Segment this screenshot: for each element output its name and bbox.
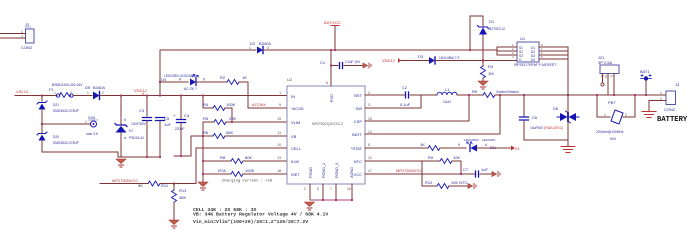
- zener D7: [115, 118, 147, 140]
- svg-text:1: 1: [604, 113, 606, 117]
- svg-text:R4: R4: [203, 102, 209, 107]
- svg-text:10uH: 10uH: [443, 100, 452, 104]
- node V3 flag: [511, 146, 519, 152]
- svg-text:2mohm/3mohm: 2mohm/3mohm: [496, 90, 519, 94]
- svg-text:PGND_3: PGND_3: [335, 163, 339, 178]
- node junctions PGND bus: [322, 199, 324, 201]
- svg-text:B340A: B340A: [259, 41, 271, 46]
- TVS D6: [553, 106, 579, 123]
- svg-text:1K: 1K: [242, 75, 247, 80]
- wire D5 to IC IN: [100, 95, 287, 97]
- wire BATT row: [365, 95, 500, 134]
- wire CELL row: [196, 147, 287, 149]
- wire R2 to ACOK drop: [239, 82, 248, 108]
- svg-text:LED/GRN: LED/GRN: [482, 138, 495, 142]
- svg-text:11: 11: [277, 131, 281, 135]
- wire R4 right drop to VLIM row: [231, 108, 233, 122]
- resistor R8 80K (ILIM): [203, 155, 287, 164]
- diode D21: [37, 101, 80, 113]
- ground arrow left rail: [116, 159, 126, 167]
- node junction R10/VCC: [460, 173, 462, 175]
- capacitor C3: [139, 96, 152, 158]
- wire NTC drop to R12: [421, 161, 423, 186]
- wire VCC row: [365, 173, 475, 175]
- resistor R9 sense: [472, 89, 519, 98]
- node junction battery/BAT1: [645, 94, 647, 96]
- svg-text:LEDC0603: LEDC0603: [464, 138, 479, 142]
- svg-text:*ACOK: *ACOK: [291, 106, 304, 111]
- svg-text:PGND_2: PGND_2: [322, 163, 326, 178]
- svg-text:VB: VB: [291, 134, 297, 139]
- node junction rail/PGD: [330, 49, 332, 51]
- node VIN_12: [16, 89, 29, 94]
- svg-text:PSD24-AI: PSD24-AI: [129, 136, 144, 140]
- node junction battery/FB right: [634, 94, 636, 96]
- wire PGND bus: [310, 199, 352, 201]
- node ACOK# label: [252, 102, 266, 107]
- wire R9 to battery line: [495, 94, 666, 96]
- svg-text:16: 16: [347, 187, 351, 191]
- wire J21 pin2: [607, 74, 609, 96]
- wire C6/TVS bottom rail: [524, 139, 568, 141]
- svg-text:15: 15: [368, 117, 372, 121]
- fuse F1: [49, 83, 83, 98]
- diode D3 1N4148: [418, 54, 460, 64]
- wire U1 source bracket: [497, 47, 517, 55]
- node junction rail/C3: [146, 156, 148, 158]
- svg-text:2: 2: [625, 113, 627, 117]
- svg-text:80K: 80K: [245, 155, 252, 160]
- svg-text:D4: D4: [161, 77, 167, 82]
- wire C4 bottom mini rail: [174, 155, 191, 157]
- svg-text:BZT52C12: BZT52C12: [489, 27, 505, 31]
- svg-text:1K: 1K: [420, 142, 425, 147]
- svg-text:MP2750NVCC: MP2750NVCC: [112, 178, 138, 183]
- ground arrow divider: [198, 182, 208, 190]
- svg-text:CELL: CELL: [291, 146, 302, 151]
- ground arrow C7 (sideways): [492, 172, 500, 177]
- svg-text:13: 13: [277, 156, 281, 160]
- svg-text:PGND: PGND: [309, 167, 313, 178]
- svg-text:R9: R9: [428, 155, 434, 160]
- ground bars J3: [642, 112, 656, 118]
- ground arrow R3: [478, 81, 488, 89]
- wire L1 to R9: [457, 94, 483, 96]
- svg-text:1M: 1M: [488, 71, 494, 76]
- svg-text:2: 2: [102, 91, 104, 95]
- svg-text:2.2uF 10V: 2.2uF 10V: [345, 60, 361, 64]
- wire VDD12 to D3: [401, 60, 429, 62]
- svg-text:SMD4532-073NP: SMD4532-073NP: [53, 109, 80, 113]
- svg-text:1: 1: [249, 46, 251, 50]
- svg-text:VDD12: VDD12: [134, 88, 148, 93]
- wire VB row to IC: [225, 135, 287, 137]
- wire top rail right of D2: [263, 49, 497, 51]
- wire U1 drain vertical to battery line: [567, 47, 569, 95]
- svg-text:D5: D5: [85, 85, 91, 90]
- wire F1 to D5: [73, 95, 92, 97]
- svg-text:1: 1: [279, 91, 281, 95]
- svg-text:Charging Current : <1A: Charging Current : <1A: [222, 179, 273, 184]
- wire CSP row: [365, 95, 469, 121]
- wire ground rail left: [118, 156, 160, 158]
- svg-text:ACOK#: ACOK#: [252, 102, 266, 107]
- svg-text:C6: C6: [532, 115, 538, 120]
- svg-text:100K: 100K: [226, 102, 236, 107]
- capacitor C1 2.2uF: [320, 60, 363, 69]
- resistor R11 5K: [138, 181, 196, 188]
- wire R11 row: [100, 183, 148, 185]
- node junction x203/ISET: [202, 173, 204, 175]
- svg-text:BAT1: BAT1: [640, 69, 650, 74]
- resistor 1K STAT: [420, 142, 440, 151]
- note bottom text: [193, 207, 328, 225]
- wire top rail: [160, 49, 256, 51]
- LED D31: [458, 138, 496, 152]
- wire LED to V3 flag: [477, 147, 511, 149]
- svg-text:56K: 56K: [226, 130, 233, 135]
- node junction BATT tap: [499, 94, 501, 96]
- svg-text:U2: U2: [287, 77, 293, 82]
- wire D7 to ground rail: [120, 133, 122, 158]
- wire divider ground column x203: [202, 122, 204, 182]
- svg-text:R12: R12: [425, 180, 433, 185]
- node junction riser/LED row: [159, 81, 161, 83]
- node junction D21/D20: [41, 123, 43, 125]
- node junction CSP tap: [468, 94, 470, 96]
- svg-text:10UF/50V: 10UF/50V: [131, 122, 147, 126]
- svg-text:CON2: CON2: [21, 45, 33, 50]
- svg-text:R6: R6: [203, 130, 209, 135]
- node junction R4/R5/VLIM: [231, 121, 233, 123]
- svg-text:4: 4: [368, 91, 370, 95]
- wire D21 to junction: [42, 110, 90, 125]
- svg-text:L1: L1: [445, 87, 450, 92]
- wire U1 drain stubs: [539, 47, 568, 59]
- transistor U1 P-MOSFET pack: [512, 36, 556, 67]
- zener D1 BZT52C12: [478, 19, 506, 35]
- svg-text:1: 1: [85, 120, 87, 124]
- svg-text:12: 12: [368, 156, 372, 160]
- svg-text:10K NTC: 10K NTC: [451, 180, 468, 185]
- power flag BAT/VCC: [324, 20, 341, 50]
- wire LED to R2: [196, 81, 227, 83]
- svg-text:18: 18: [277, 169, 281, 173]
- connector J2 top-left: [21, 22, 34, 50]
- wire SW to L1: [421, 94, 437, 96]
- svg-text:9: 9: [279, 103, 281, 107]
- svg-text:BAT/VCC: BAT/VCC: [324, 20, 341, 25]
- resistor R3 1M: [481, 61, 494, 82]
- svg-text:BATT: BATT: [352, 132, 362, 137]
- svg-text:10uF50V: 10uF50V: [530, 126, 544, 130]
- ground arrow C1 (sideways): [363, 63, 371, 68]
- wire VLIM row to IC: [226, 121, 287, 123]
- svg-text:*STAT: *STAT: [351, 146, 363, 151]
- svg-text:C1: C1: [320, 60, 326, 65]
- wire zener loop: [470, 16, 483, 61]
- svg-text:D3: D3: [418, 54, 424, 59]
- svg-text:VCC: VCC: [354, 172, 363, 177]
- connector J21 3P: [598, 55, 619, 78]
- ground arrow R13: [169, 220, 179, 228]
- svg-text:1: 1: [54, 91, 56, 95]
- svg-text:1: 1: [660, 91, 662, 95]
- svg-text:17: 17: [368, 169, 372, 173]
- svg-text:D7: D7: [129, 129, 133, 133]
- node junction battery line/U1: [567, 94, 569, 96]
- svg-text:6: 6: [326, 81, 328, 85]
- wire ACOK row: [248, 107, 287, 109]
- node junction D3/zener/R3: [482, 60, 484, 62]
- capacitor C4 220uF: [173, 96, 190, 157]
- svg-text:5K: 5K: [138, 183, 143, 188]
- svg-text:CSP: CSP: [354, 119, 363, 124]
- svg-text:19: 19: [277, 117, 281, 121]
- svg-text:220uF: 220uF: [175, 127, 184, 131]
- wire STAT row: [365, 147, 428, 149]
- resistor R4 100K: [203, 102, 236, 111]
- svg-text:VLIM: VLIM: [291, 120, 300, 125]
- svg-text:MP2750GQJXXXX-Z: MP2750GQJXXXX-Z: [312, 122, 343, 126]
- node junction x203/ILIM: [202, 160, 204, 162]
- wire TVS column: [567, 95, 569, 113]
- resistor R12 10K NTC: [422, 180, 468, 189]
- wire BST row: [365, 94, 405, 96]
- svg-text:VIN 12: VIN 12: [16, 89, 29, 94]
- svg-text:U1: U1: [520, 36, 526, 41]
- resistor R7A 100K (ISET): [203, 168, 287, 177]
- wire VB left drop: [190, 136, 192, 156]
- svg-text:10: 10: [277, 143, 281, 147]
- wire D20 to bottom rail: [41, 124, 43, 133]
- svg-text:SW: SW: [356, 106, 363, 111]
- svg-text:R3: R3: [488, 64, 494, 69]
- node junction rail/BATVCC: [334, 49, 336, 51]
- node junction x203/VB row: [202, 135, 204, 137]
- wire CELL drop x196: [195, 148, 197, 184]
- wire TVS column x42: [41, 96, 43, 102]
- resistor R6 56K: [191, 130, 233, 139]
- connector J3 battery CON2: [657, 82, 688, 124]
- svg-text:BATTERY: BATTERY: [657, 116, 688, 124]
- svg-text:100K: 100K: [245, 168, 255, 173]
- svg-text:8: 8: [368, 143, 370, 147]
- svg-text:C4: C4: [184, 113, 190, 118]
- resistor R10 10K pullup: [422, 155, 461, 164]
- ground bars C6/TVS: [561, 140, 575, 153]
- wire PGND stubs: [310, 184, 352, 200]
- svg-text:Vin_min=Vlim*(100+20)/20=1.2*1: Vin_min=Vlim*(100+20)/20=1.2*120/20=7.2V: [193, 219, 308, 225]
- node junction main/C3: [146, 95, 148, 97]
- svg-text:R5: R5: [203, 116, 209, 121]
- resistor R2 1K: [220, 75, 247, 85]
- wire J21 pin3: [613, 74, 615, 96]
- svg-text:1N4148W-7-F: 1N4148W-7-F: [439, 56, 460, 60]
- wire D3 to U1 gate: [435, 60, 517, 62]
- wire J21 pin1 w/ open end: [601, 74, 604, 87]
- svg-text:1uF: 1uF: [164, 122, 171, 127]
- wire NTC row: [365, 160, 422, 162]
- svg-text:BSMD1206-200-16V: BSMD1206-200-16V: [52, 83, 83, 87]
- node junction battery line/C6: [523, 94, 525, 96]
- svg-text:5: 5: [317, 187, 319, 191]
- wire SW row: [365, 107, 421, 109]
- ground arrow R12 (sideways): [468, 184, 476, 189]
- node junction R11/R13: [173, 183, 175, 185]
- node junction main/D7: [120, 95, 122, 97]
- svg-text:3: 3: [368, 103, 370, 107]
- svg-text:1uF: 1uF: [481, 167, 488, 172]
- svg-text:AGND: AGND: [350, 167, 354, 178]
- node VDD12 flag: [134, 88, 148, 96]
- node junction battery/FB left: [596, 94, 598, 96]
- svg-text:20K: 20K: [229, 116, 236, 121]
- svg-text:NTC: NTC: [354, 159, 362, 164]
- node junction battery/J21: [613, 94, 615, 96]
- svg-text:0.1uF: 0.1uF: [400, 102, 411, 107]
- svg-text:B340A: B340A: [93, 85, 105, 90]
- svg-text:14: 14: [368, 130, 372, 134]
- svg-text:IN: IN: [291, 94, 295, 99]
- ferrite bead FB7 loop: [597, 95, 635, 117]
- svg-text:2: 2: [267, 46, 269, 50]
- svg-text:BST: BST: [354, 93, 362, 98]
- svg-text:D6: D6: [553, 106, 559, 111]
- svg-text:D4: D4: [531, 58, 535, 62]
- resistor R5 20K: [203, 116, 236, 125]
- svg-text:(RAB,DISC): (RAB,DISC): [544, 126, 563, 130]
- svg-text:PGD: PGD: [330, 94, 334, 102]
- op-amp U2 MP2750 charger IC: [277, 77, 372, 191]
- wire J3 pin2 to ground: [649, 101, 666, 112]
- svg-text:7: 7: [330, 187, 332, 191]
- svg-text:C7: C7: [463, 167, 469, 172]
- wire J2 pin2: [0, 37, 26, 39]
- node junction rail/C5: [159, 156, 161, 158]
- node junction PGD/C1: [330, 65, 332, 67]
- svg-text:PB7: PB7: [608, 100, 616, 105]
- svg-text:R2: R2: [220, 75, 226, 80]
- node MP2750NVCC label right: [396, 168, 422, 173]
- svg-text:hole 3.5: hole 3.5: [86, 132, 98, 136]
- capacitor C2 0.1uF: [400, 85, 421, 107]
- svg-text:D21: D21: [53, 103, 59, 107]
- mounting hole S34: [85, 115, 98, 136]
- svg-text:D20: D20: [53, 135, 59, 139]
- svg-text:VB: 34K Battery Regulator Vol: VB: 34K Battery Regulator Voltage 4V / 6…: [193, 212, 328, 218]
- svg-text:D1: D1: [489, 19, 495, 24]
- inductor L1 10uH: [437, 87, 457, 104]
- svg-text:R8: R8: [220, 155, 226, 160]
- battery BAT1: [640, 69, 652, 95]
- node junction main/R4: [202, 95, 204, 97]
- svg-text:2: 2: [304, 187, 306, 191]
- svg-text:DNI: DNI: [610, 137, 616, 141]
- capacitor C7 1uF: [463, 167, 492, 177]
- note charging current: [222, 179, 273, 184]
- svg-text:3P 2.5A: 3P 2.5A: [598, 60, 612, 65]
- wire R10 to VCC row: [460, 161, 462, 174]
- svg-text:VDD12: VDD12: [382, 58, 396, 63]
- wire zener D7 column: [120, 96, 122, 125]
- svg-text:ISET: ISET: [291, 172, 300, 177]
- svg-text:220ohm@100MHz: 220ohm@100MHz: [596, 130, 624, 134]
- capacitor C6 column: [520, 95, 564, 140]
- wire to LED D31: [440, 147, 466, 149]
- svg-text:R9: R9: [472, 89, 478, 94]
- LED D4: [161, 74, 206, 91]
- wire LED row left: [160, 81, 188, 83]
- wire main input: [15, 95, 57, 97]
- wire C2/SW vertical: [420, 95, 422, 108]
- node VDD12 flag right: [382, 58, 401, 63]
- capacitor C5: [156, 116, 172, 157]
- wire J2 pin1: [0, 33, 26, 35]
- svg-text:IRF9321TRPbF P-MOSFET: IRF9321TRPbF P-MOSFET: [514, 63, 556, 67]
- svg-text:SMD4532-073NP: SMD4532-073NP: [53, 141, 80, 145]
- svg-text:C3: C3: [139, 108, 145, 113]
- svg-text:AC OK ?: AC OK ?: [184, 87, 197, 91]
- svg-text:ILIM: ILIM: [291, 159, 299, 164]
- svg-text:1: 1: [87, 91, 89, 95]
- node junction main/riser: [159, 95, 161, 97]
- diode D2 B340A on top rail: [249, 41, 271, 54]
- node junction C4/mini rail: [180, 155, 182, 157]
- svg-text:C2: C2: [402, 85, 408, 90]
- svg-text:V3: V3: [515, 147, 519, 151]
- svg-text:10K: 10K: [453, 155, 460, 160]
- svg-text:R7A: R7A: [218, 168, 226, 173]
- wire R4 drop from main: [202, 96, 204, 109]
- svg-text:S34: S34: [88, 115, 96, 120]
- svg-text:MP2750NVCC: MP2750NVCC: [396, 168, 422, 173]
- resistor R13 36K vertical: [172, 184, 188, 221]
- svg-text:36K: 36K: [179, 195, 186, 200]
- diode D5 B340A: [85, 85, 105, 100]
- ground arrow PGND: [305, 202, 315, 210]
- diode D20: [37, 132, 80, 145]
- node junction rail/zener loop: [469, 49, 471, 51]
- svg-text:R13: R13: [179, 188, 187, 193]
- ferrite bead FB7: [596, 100, 627, 141]
- wire PGD riser: [330, 50, 332, 86]
- node junction main/D21: [41, 95, 43, 97]
- svg-text:CON2: CON2: [664, 107, 676, 112]
- wire VDD12 riser to top rail: [159, 50, 161, 96]
- node MP2750NVCC left: [112, 178, 138, 183]
- node junction main/C4: [180, 95, 182, 97]
